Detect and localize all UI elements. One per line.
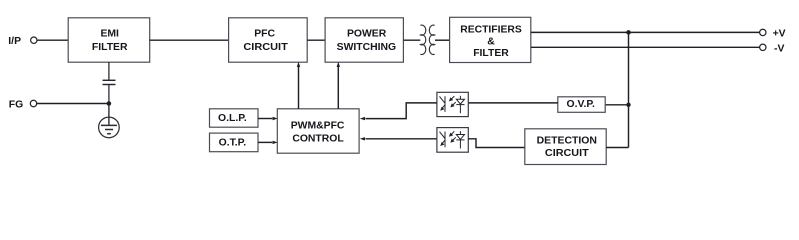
node FG terminal	[30, 100, 36, 106]
wire FG terminal to junction	[37, 103, 109, 105]
svg-text:PWM&PFC: PWM&PFC	[291, 120, 345, 131]
block O.L.P.	[210, 109, 259, 127]
svg-text:-V: -V	[774, 43, 784, 54]
wire EMI FILTER to PFC CIRCUIT	[150, 39, 229, 41]
wire O.L.P. to PWM&PFC CONTROL	[258, 118, 272, 120]
svg-text:RECTIFIERS: RECTIFIERS	[460, 25, 522, 36]
block RECTIFIERS & FILTER	[450, 17, 531, 62]
svg-text:&: &	[487, 37, 495, 48]
wire EMI FILTER to capacitor C1	[108, 62, 110, 80]
block DETECTION CIRCUIT	[525, 129, 606, 165]
svg-text:O.L.P.: O.L.P.	[218, 113, 247, 124]
svg-text:CONTROL: CONTROL	[292, 133, 344, 144]
node I/P terminal	[31, 37, 37, 43]
svg-text:CIRCUIT: CIRCUIT	[243, 42, 288, 53]
arrowhead into PFC CIRCUIT bottom	[297, 62, 300, 67]
arrowhead into POWER SWITCHING bottom	[337, 62, 340, 67]
arrowhead into PWM&PFC CONTROL left (upper)	[273, 117, 278, 120]
wire O.T.P. to PWM&PFC CONTROL	[258, 141, 272, 143]
capacitor C1 (Y-cap to FG)	[103, 80, 116, 84]
junction dot at O.V.P. wire	[626, 103, 630, 107]
wire POWER SWITCHING to transformer T1 primary	[403, 39, 420, 41]
protective earth ground symbol	[99, 117, 120, 138]
wire opto PC1 to O.V.P.	[468, 102, 558, 104]
wire DETECTION CIRCUIT to feedback line	[606, 147, 628, 149]
wire PWM&PFC CONTROL to PFC CIRCUIT	[298, 66, 300, 109]
svg-text:SWITCHING: SWITCHING	[337, 42, 396, 53]
junction dot on +V line	[626, 30, 631, 35]
wire PFC CIRCUIT to POWER SWITCHING	[307, 39, 325, 41]
block O.V.P.	[558, 97, 605, 113]
wire capacitor C1 to FG junction	[108, 85, 110, 104]
wire opto PC2 to PWM&PFC CONTROL	[366, 138, 437, 140]
wire transformer T1 to RECTIFIERS & FILTER	[435, 39, 450, 41]
transformer T1 primary winding	[420, 25, 425, 54]
svg-text:FILTER: FILTER	[92, 42, 128, 53]
wire +V output	[531, 31, 760, 33]
svg-text:DETECTION: DETECTION	[537, 136, 597, 147]
wire O.V.P. to feedback line	[605, 104, 628, 106]
optocoupler PC1	[437, 92, 468, 116]
svg-text:CIRCUIT: CIRCUIT	[545, 148, 589, 159]
svg-text:+V: +V	[773, 29, 786, 40]
wire opto PC1 to PWM&PFC CONTROL	[366, 103, 437, 119]
wire FG junction to protective earth	[108, 104, 110, 126]
svg-text:FG: FG	[9, 99, 23, 110]
block PFC CIRCUIT	[229, 18, 308, 62]
wire -V output	[531, 46, 760, 48]
svg-text:PFC: PFC	[254, 28, 275, 39]
wire opto PC2 to DETECTION CIRCUIT	[468, 139, 525, 148]
svg-text:EMI: EMI	[100, 28, 119, 39]
block POWER SWITCHING	[325, 18, 403, 62]
node -V terminal	[760, 44, 766, 50]
transformer T1 secondary winding	[429, 25, 434, 54]
svg-text:O.V.P.: O.V.P.	[567, 99, 595, 110]
block PWM&PFC CONTROL	[277, 109, 359, 153]
svg-text:POWER: POWER	[347, 28, 387, 39]
wire feedback vertical from +V line down	[628, 32, 630, 147]
junction dot FG node	[107, 101, 112, 106]
svg-text:O.T.P.: O.T.P.	[219, 137, 247, 148]
arrowhead into PWM&PFC CONTROL right (lower)	[360, 137, 365, 140]
svg-text:I/P: I/P	[8, 36, 21, 47]
wire I/P to EMI FILTER	[37, 39, 68, 41]
block O.T.P.	[210, 133, 259, 152]
optocoupler PC2	[437, 128, 468, 153]
arrowhead into PWM&PFC CONTROL left (lower)	[273, 141, 278, 144]
wire PWM&PFC CONTROL to POWER SWITCHING	[337, 66, 339, 109]
svg-text:FILTER: FILTER	[473, 48, 509, 59]
node +V terminal	[760, 29, 766, 35]
arrowhead into PWM&PFC CONTROL right (upper)	[360, 117, 365, 120]
block EMI FILTER	[68, 18, 150, 62]
